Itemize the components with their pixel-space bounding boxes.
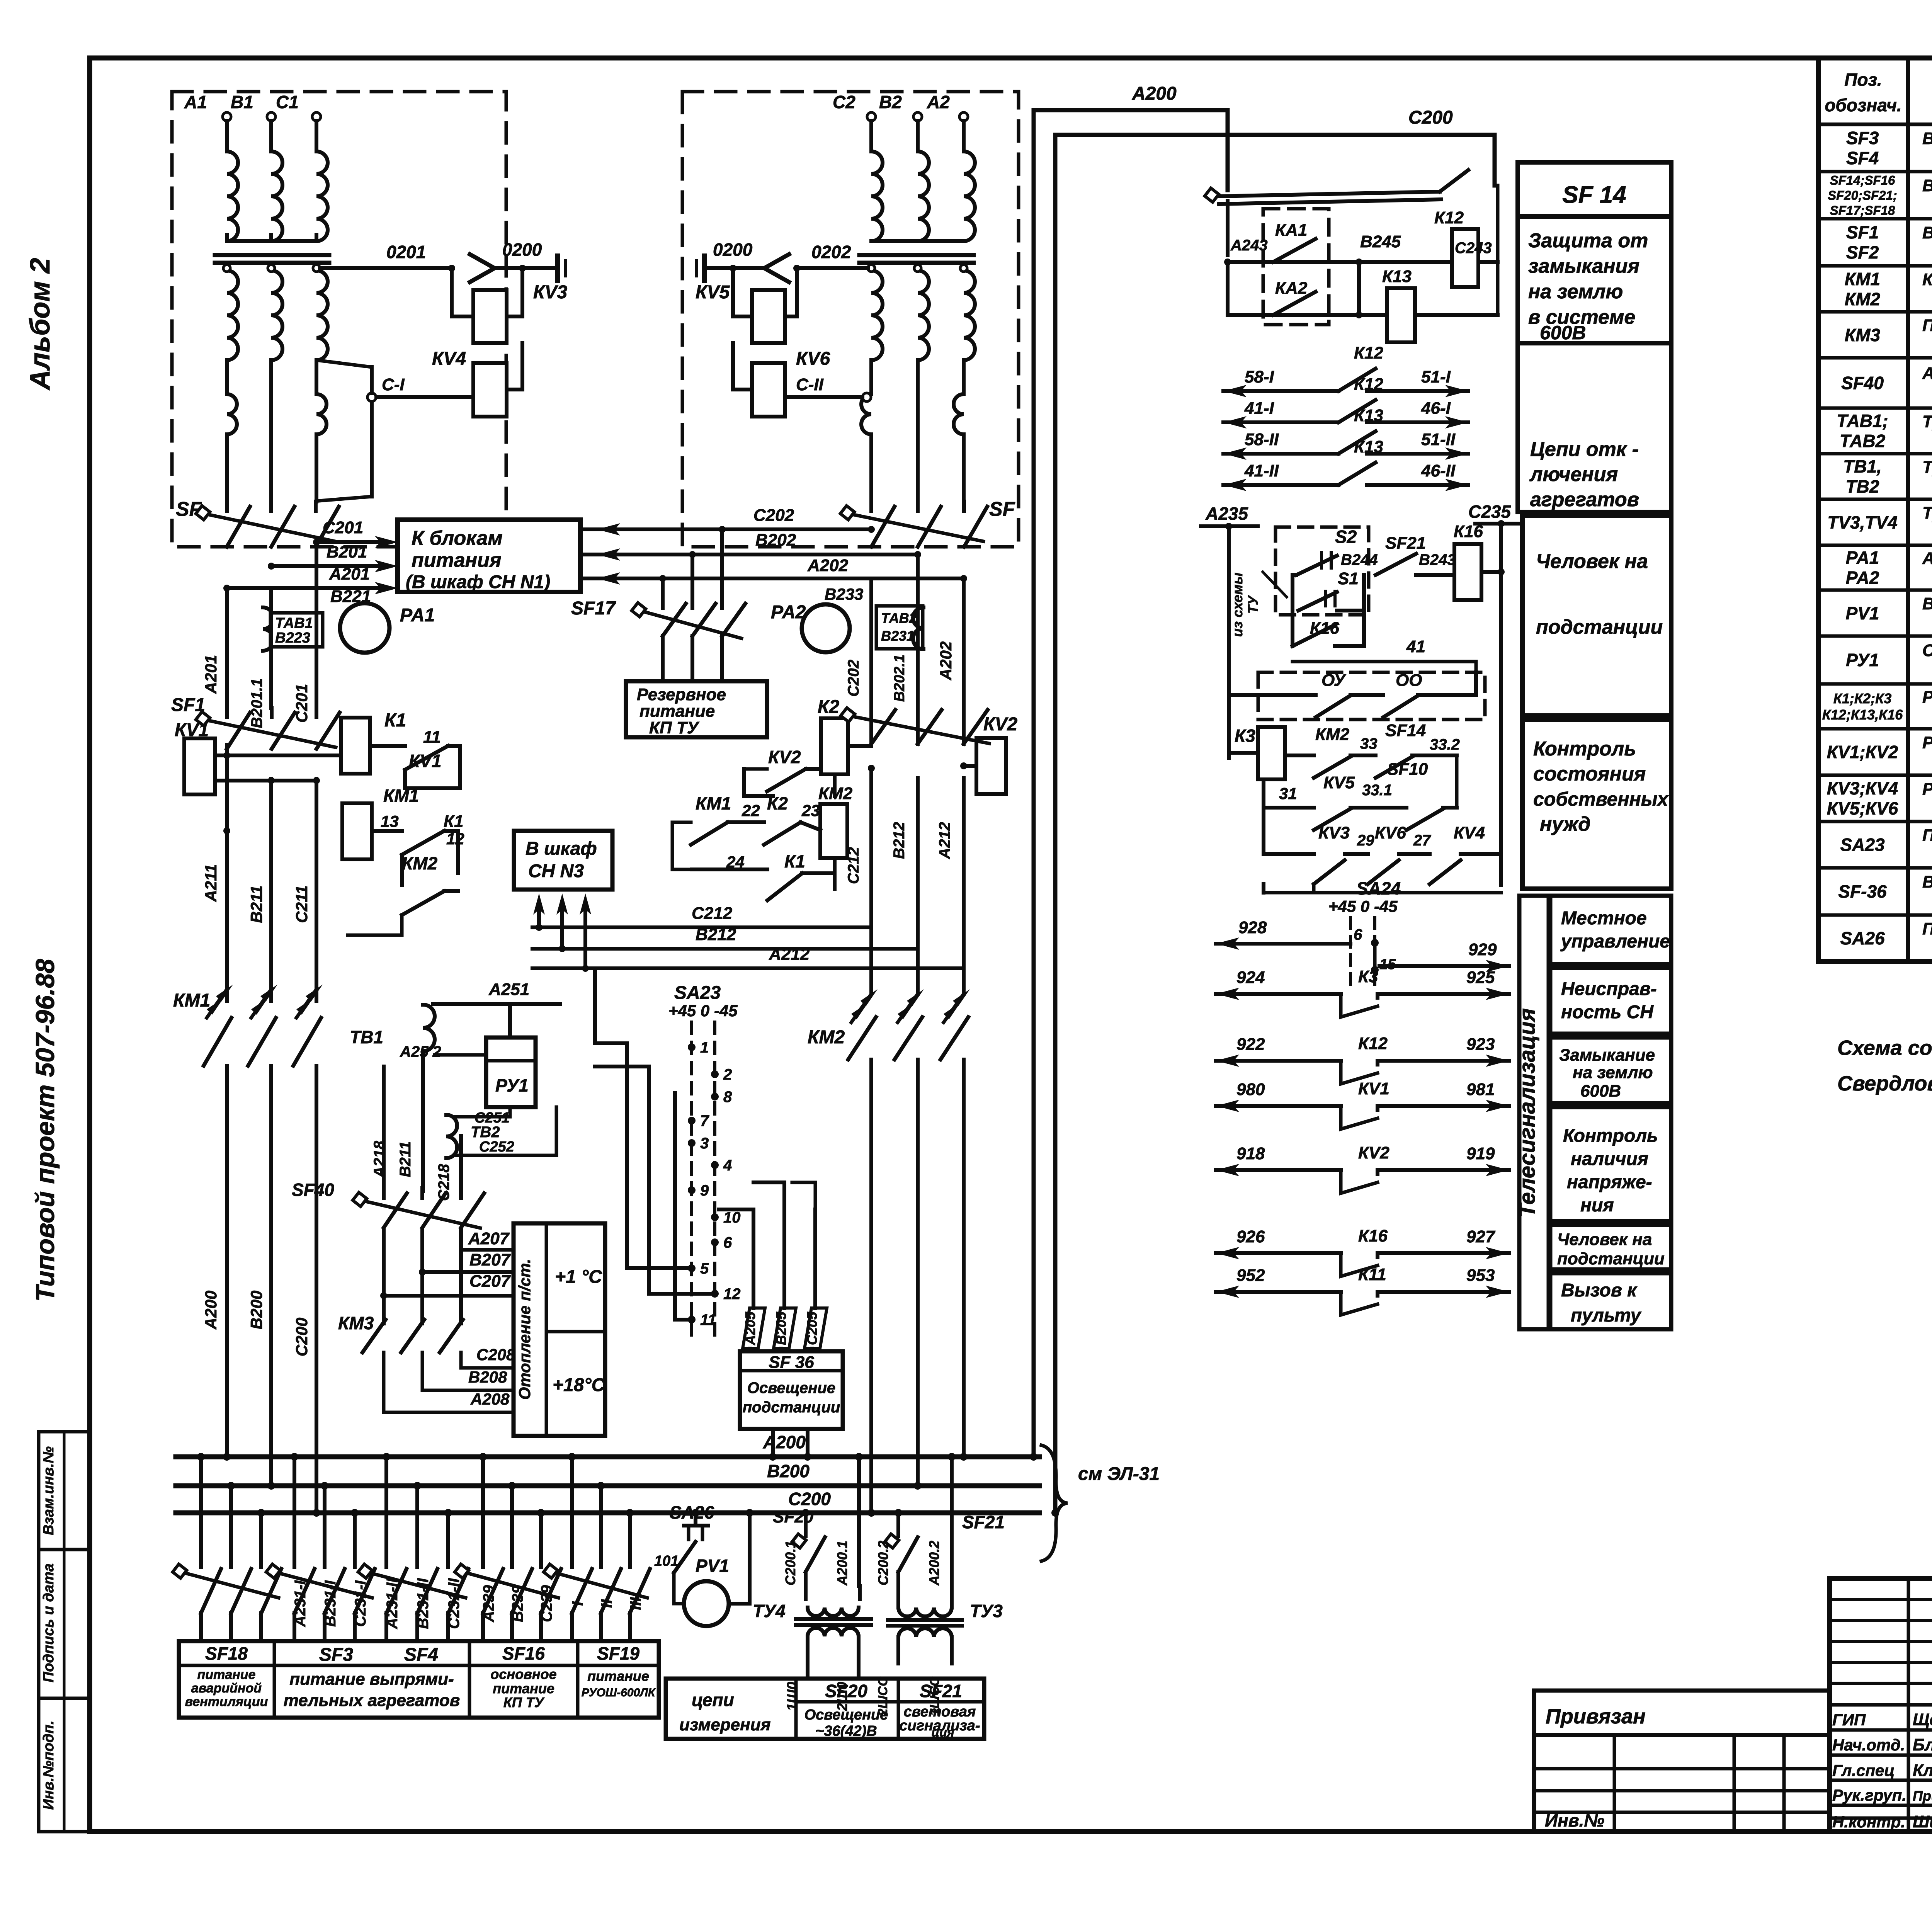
svg-text:К16: К16 xyxy=(1358,1226,1388,1245)
svg-text:41: 41 xyxy=(1406,637,1425,656)
svg-text:РА2: РА2 xyxy=(1846,568,1879,588)
svg-text:К12;К13,К16: К12;К13,К16 xyxy=(1822,707,1903,723)
svg-text:980: 980 xyxy=(1236,1080,1265,1099)
svg-text:К1: К1 xyxy=(444,812,464,831)
svg-text:С208: С208 xyxy=(476,1345,515,1364)
svg-text:лючения: лючения xyxy=(1529,463,1618,486)
svg-text:41-II: 41-II xyxy=(1244,461,1279,480)
wire 0201 xyxy=(320,266,452,270)
svg-text:РА2: РА2 xyxy=(771,602,806,623)
svg-text:С252: С252 xyxy=(479,1139,514,1155)
svg-text:КV2: КV2 xyxy=(768,747,801,767)
telesignal row 980 KV1 981 xyxy=(1216,1104,1341,1108)
current transformer TAB2 xyxy=(876,606,923,649)
svg-text:Выключатель автоматический А: Выключатель автоматический АП50-3МТ xyxy=(1922,176,1932,195)
svg-text:основное: основное xyxy=(490,1666,556,1682)
T2 primary leads xyxy=(869,121,873,151)
svg-text:КП ТУ: КП ТУ xyxy=(649,718,700,737)
label box earth-fault xyxy=(1518,216,1671,343)
svg-text:А218: А218 xyxy=(371,1140,388,1178)
svg-text:В201.1: В201.1 xyxy=(248,679,265,728)
feeder group 3 poles xyxy=(384,1457,388,1567)
svg-text:В233: В233 xyxy=(825,585,863,603)
svg-text:ТАВ1: ТАВ1 xyxy=(275,615,313,631)
svg-text:SF14: SF14 xyxy=(1385,721,1426,740)
svg-text:ОУ: ОУ xyxy=(1321,671,1346,690)
relay K16 coil xyxy=(1454,544,1481,600)
svg-text:А2: А2 xyxy=(927,92,950,112)
svg-text:В212: В212 xyxy=(891,822,908,859)
svg-text:С231-I: С231-I xyxy=(352,1580,369,1627)
svg-text:А201: А201 xyxy=(202,655,220,694)
relay KV6 xyxy=(752,363,785,417)
svg-text:С243: С243 xyxy=(1455,240,1492,257)
label box call to console xyxy=(1550,1273,1671,1329)
svg-text:КА2: КА2 xyxy=(1275,279,1308,298)
svg-text:23: 23 xyxy=(801,801,820,820)
svg-text:SF 14: SF 14 xyxy=(1562,182,1626,208)
svg-text:пульту: пульту xyxy=(1571,1305,1642,1326)
svg-text:SA26: SA26 xyxy=(1840,928,1884,948)
transformer T2 dashed enclosure xyxy=(682,92,1019,547)
svg-text:58-II: 58-II xyxy=(1245,430,1279,449)
svg-text:922: 922 xyxy=(1236,1035,1265,1054)
svg-text:Свердловского электромеханиче: Свердловского электромеханического завод… xyxy=(1837,1072,1932,1095)
svg-text:SF40: SF40 xyxy=(292,1180,334,1200)
svg-text:агрегатов: агрегатов xyxy=(1530,488,1639,511)
svg-text:состояния: состояния xyxy=(1533,763,1646,785)
bus C200 xyxy=(176,1510,1039,1516)
measuring circuits table xyxy=(666,1679,984,1739)
transformer T1 dashed enclosure xyxy=(172,92,506,547)
relay KV3 xyxy=(473,290,507,343)
svg-text:6: 6 xyxy=(1354,926,1362,943)
svg-text:А202: А202 xyxy=(937,641,955,680)
wires from SF36 box to buses xyxy=(771,1429,775,1457)
svg-text:SF2: SF2 xyxy=(1846,242,1879,262)
svg-text:923: 923 xyxy=(1466,1035,1495,1054)
svg-text:КV6: КV6 xyxy=(1375,823,1406,842)
svg-text:0202: 0202 xyxy=(811,242,851,262)
svg-text:С2: С2 xyxy=(833,92,855,112)
svg-text:А205: А205 xyxy=(742,1311,758,1345)
svg-text:В211: В211 xyxy=(247,885,265,923)
svg-text:918: 918 xyxy=(1236,1144,1265,1163)
svg-text:~36(42)В: ~36(42)В xyxy=(815,1723,877,1739)
svg-text:+1 °С: +1 °С xyxy=(555,1267,602,1287)
svg-text:Выключатель автоматический А3: Выключатель автоматический А3716 xyxy=(1922,223,1932,242)
T2 tertiary CT coils xyxy=(861,394,871,434)
relay KV1 box xyxy=(184,738,215,794)
svg-text:В201: В201 xyxy=(327,543,367,561)
svg-text:КV6: КV6 xyxy=(796,349,830,369)
linked-project table xyxy=(1534,1691,1830,1832)
svg-text:В231: В231 xyxy=(881,628,914,644)
svg-text:5: 5 xyxy=(700,1260,709,1277)
svg-text:III: III xyxy=(627,1597,644,1610)
ladder bottom wire xyxy=(1262,884,1265,893)
svg-text:51-I: 51-I xyxy=(1421,367,1451,386)
svg-text:КА1: КА1 xyxy=(1275,221,1307,240)
svg-text:К12: К12 xyxy=(1358,1034,1388,1053)
wire B202 row xyxy=(580,553,918,556)
svg-text:Замыкание: Замыкание xyxy=(1559,1046,1655,1065)
svg-text:КМ3: КМ3 xyxy=(338,1313,374,1333)
svg-text:928: 928 xyxy=(1238,918,1267,937)
T1 secondary leads xyxy=(225,360,229,393)
svg-text:КМ2: КМ2 xyxy=(1845,289,1881,309)
svg-text:ОО: ОО xyxy=(1396,671,1422,690)
svg-text:подстанции: подстанции xyxy=(743,1399,840,1416)
bus junction dots xyxy=(223,1453,231,1461)
svg-text:В208: В208 xyxy=(468,1368,507,1386)
svg-text:Контактор КТ6013-01У3 ~220В: Контактор КТ6013-01У3 ~220В xyxy=(1922,270,1932,289)
svg-text:С239: С239 xyxy=(538,1585,555,1622)
svg-text:К3: К3 xyxy=(1358,967,1378,986)
svg-text:К11: К11 xyxy=(1358,1265,1386,1284)
svg-text:Типовой проект 507-96.88: Типовой проект 507-96.88 xyxy=(31,959,60,1302)
telesignalling vertical strip xyxy=(1519,896,1549,1329)
svg-text:КV5;КV6: КV5;КV6 xyxy=(1827,798,1898,818)
SA23 wiring to KM2 rows xyxy=(625,1043,629,1268)
relay KV2 box xyxy=(976,738,1006,794)
svg-text:на землю: на землю xyxy=(1573,1063,1653,1082)
svg-text:вентиляции: вентиляции xyxy=(185,1694,268,1709)
svg-text:953: 953 xyxy=(1466,1266,1495,1285)
svg-text:А211: А211 xyxy=(202,864,220,902)
label box SN fault xyxy=(1550,968,1671,1034)
svg-text:А1: А1 xyxy=(184,92,207,112)
svg-text:РУ1: РУ1 xyxy=(495,1075,529,1095)
svg-text:КV3: КV3 xyxy=(533,282,568,303)
svg-text:В202: В202 xyxy=(755,531,796,549)
svg-text:Реле промежуточное РП25 УХЛ4;: Реле промежуточное РП25 УХЛ4; ~220В xyxy=(1922,688,1932,707)
svg-text:КМ2: КМ2 xyxy=(818,784,853,803)
fuse tags A205 B205 C205 xyxy=(743,1308,765,1349)
wires A211 B211 C211 xyxy=(225,745,229,1001)
svg-text:+45 0 -45: +45 0 -45 xyxy=(1328,897,1398,915)
svg-text:51-II: 51-II xyxy=(1421,430,1456,449)
svg-text:S1: S1 xyxy=(1338,569,1359,588)
svg-text:КМ2: КМ2 xyxy=(1315,725,1350,744)
svg-text:на землю: на землю xyxy=(1528,281,1623,303)
svg-text:33.2: 33.2 xyxy=(1430,736,1460,753)
node C-I tap xyxy=(367,393,376,401)
relay K13 (earth) xyxy=(1387,288,1415,342)
svg-text:925: 925 xyxy=(1466,968,1495,987)
SA23 contacts xyxy=(688,1043,696,1051)
svg-text:927: 927 xyxy=(1466,1227,1496,1246)
svg-text:SF3: SF3 xyxy=(1846,128,1879,148)
label box local control xyxy=(1550,896,1671,964)
svg-text:Контроль: Контроль xyxy=(1563,1126,1658,1146)
svg-text:С200: С200 xyxy=(1408,107,1453,128)
feeder C200 top xyxy=(1055,135,1495,185)
svg-text:собственных: собственных xyxy=(1533,788,1669,810)
svg-text:ция: ция xyxy=(931,1725,954,1739)
svg-text:I: I xyxy=(569,1601,586,1606)
svg-text:SF20;SF21;: SF20;SF21; xyxy=(1828,188,1897,202)
svg-text:КV2: КV2 xyxy=(1358,1143,1389,1162)
feeder group 4 poles xyxy=(481,1457,485,1567)
svg-text:С205: С205 xyxy=(804,1311,820,1345)
svg-text:подстанции: подстанции xyxy=(1557,1249,1665,1268)
svg-text:SF20: SF20 xyxy=(825,1681,867,1701)
svg-text:КV1;КV2: КV1;КV2 xyxy=(1827,742,1898,762)
svg-text:С212: С212 xyxy=(845,847,862,884)
svg-text:46-I: 46-I xyxy=(1421,399,1451,418)
svg-text:SF21: SF21 xyxy=(962,1512,1005,1532)
link arrow to 0200 xyxy=(470,254,495,282)
svg-text:КV3: КV3 xyxy=(1318,823,1350,842)
svg-text:обознач.: обознач. xyxy=(1825,95,1901,115)
svg-text:А200: А200 xyxy=(202,1291,220,1330)
feeder group 5 poles xyxy=(570,1457,574,1567)
SA23 dashed stems xyxy=(690,1022,693,1335)
svg-text:К13: К13 xyxy=(1354,437,1383,456)
svg-text:SF19: SF19 xyxy=(597,1643,639,1664)
svg-text:Резервное: Резервное xyxy=(637,685,726,704)
bank2 phase breaker contacts xyxy=(871,710,895,744)
svg-text:SA23: SA23 xyxy=(1840,835,1884,855)
svg-text:ТВ1,: ТВ1, xyxy=(1843,456,1882,476)
current transformer TB1 xyxy=(423,1005,435,1051)
svg-text:12: 12 xyxy=(723,1286,741,1303)
svg-text:II: II xyxy=(598,1599,615,1608)
svg-text:7: 7 xyxy=(700,1112,709,1129)
svg-text:КV5: КV5 xyxy=(1323,773,1355,792)
svg-text:Переключатель ТП1-2: Переключатель ТП1-2 xyxy=(1922,919,1932,938)
svg-text:2: 2 xyxy=(723,1066,732,1083)
telecontrol row 58-I K12 51-I xyxy=(1223,389,1338,393)
svg-text:Переключатель универсальный: Переключатель универсальный xyxy=(1922,826,1932,845)
svg-text:Отопление п/ст.: Отопление п/ст. xyxy=(515,1259,534,1400)
svg-text:из схемы: из схемы xyxy=(1230,573,1245,637)
svg-text:К13: К13 xyxy=(1354,406,1383,425)
svg-text:КМ1: КМ1 xyxy=(383,786,419,806)
svg-text:22: 22 xyxy=(742,801,760,820)
telecontrol row 41-I K12 46-I xyxy=(1223,420,1338,424)
svg-text:Схема соответствует чертежу: Схема соответствует чертежу ЗМЗ 512.086-… xyxy=(1837,1036,1932,1060)
svg-text:ТУ: ТУ xyxy=(1245,595,1261,614)
svg-text:РА1: РА1 xyxy=(1846,548,1879,568)
svg-text:Неисправ-: Неисправ- xyxy=(1561,979,1657,999)
bus continuation brace xyxy=(1041,1445,1068,1561)
svg-text:8: 8 xyxy=(723,1089,732,1106)
K2 coil connection xyxy=(848,744,871,748)
svg-text:Реле напряжения РН-53/200: Реле напряжения РН-53/200 xyxy=(1922,779,1932,798)
svg-text:КV1: КV1 xyxy=(1358,1079,1389,1098)
T2 secondary leads xyxy=(869,360,873,393)
svg-text:аварийной: аварийной xyxy=(191,1681,262,1696)
terminal A2 xyxy=(959,112,968,121)
svg-text:подстанции: подстанции xyxy=(1536,616,1663,638)
svg-text:ТАВ2: ТАВ2 xyxy=(1840,431,1886,451)
svg-text:3: 3 xyxy=(700,1135,709,1152)
svg-text:нужд: нужд xyxy=(1540,813,1590,835)
svg-text:0200: 0200 xyxy=(502,240,542,260)
relay KV5 xyxy=(752,290,785,343)
label box earth fault 600V xyxy=(1550,1038,1671,1103)
svg-text:SF 36: SF 36 xyxy=(769,1353,814,1372)
svg-text:46-II: 46-II xyxy=(1421,461,1456,480)
svg-text:наличия: наличия xyxy=(1571,1149,1648,1169)
svg-text:Автоматический выключатель АП: Автоматический выключатель АП50-3МТ xyxy=(1922,364,1932,383)
svg-text:ГИП: ГИП xyxy=(1832,1711,1866,1729)
wire A201 row xyxy=(227,586,383,590)
svg-text:В211: В211 xyxy=(397,1141,414,1177)
svg-text:Альбом 2: Альбом 2 xyxy=(25,258,56,390)
wire 0202 xyxy=(797,266,868,270)
svg-text:SF: SF xyxy=(989,498,1015,520)
svg-text:С212: С212 xyxy=(692,904,733,923)
left stamp boxes xyxy=(39,1432,90,1832)
svg-text:TV3,TV4: TV3,TV4 xyxy=(1827,512,1898,532)
svg-text:КV2: КV2 xyxy=(983,714,1018,735)
svg-text:(В шкаф СН N1): (В шкаф СН N1) xyxy=(406,572,550,592)
svg-text:КV5: КV5 xyxy=(696,282,730,303)
T2 primary star bar xyxy=(871,239,964,243)
current transformer TB2 xyxy=(446,1115,457,1158)
T2 secondary top terminals xyxy=(868,265,875,272)
svg-text:РУ1: РУ1 xyxy=(1846,650,1879,670)
svg-text:981: 981 xyxy=(1466,1080,1495,1099)
svg-text:ность СН: ность СН xyxy=(1561,1002,1654,1022)
T2 primary coils xyxy=(871,151,883,241)
wires to lighting tags xyxy=(752,1209,755,1279)
svg-text:С202: С202 xyxy=(753,506,794,525)
svg-text:SF18: SF18 xyxy=(205,1643,248,1664)
svg-text:Трансформатор ОСМ1-0,25У3; 220: Трансформатор ОСМ1-0,25У3; 220/42В xyxy=(1922,503,1932,522)
svg-text:Поз.: Поз. xyxy=(1844,70,1882,90)
feeder description boxes xyxy=(179,1641,659,1718)
svg-text:SF16: SF16 xyxy=(502,1643,545,1664)
svg-text:952: 952 xyxy=(1236,1266,1265,1285)
svg-text:11: 11 xyxy=(700,1311,716,1328)
svg-text:SF4: SF4 xyxy=(404,1645,438,1665)
svg-text:Цепи отк -: Цепи отк - xyxy=(1530,438,1639,461)
svg-text:31: 31 xyxy=(1279,784,1297,803)
svg-text:К1: К1 xyxy=(384,710,406,731)
svg-text:Трансформатор ТК-40-40/ 5: Трансформатор ТК-40-40/ 5 xyxy=(1922,458,1932,477)
svg-text:А212: А212 xyxy=(769,945,810,964)
svg-text:К12: К12 xyxy=(1434,208,1464,227)
svg-text:К13: К13 xyxy=(1382,267,1412,286)
T1 primary coils xyxy=(227,151,238,241)
T2 core xyxy=(859,253,974,257)
telesignal row 929 xyxy=(1379,964,1509,968)
svg-text:+18°С: +18°С xyxy=(553,1375,605,1395)
svg-text:тельных агрегатов: тельных агрегатов xyxy=(284,1691,460,1710)
svg-text:Пускатель магнитный ПМЛ-210004: Пускатель магнитный ПМЛ-210004;~220В; 25… xyxy=(1922,316,1932,335)
svg-text:С200: С200 xyxy=(293,1318,311,1356)
wire 0200 left separable terminal xyxy=(707,266,764,270)
svg-text:КV1: КV1 xyxy=(409,751,442,771)
svg-text:Щетинский: Щетинский xyxy=(1913,1710,1932,1729)
svg-text:А200.2: А200.2 xyxy=(926,1541,942,1586)
svg-text:11: 11 xyxy=(423,728,441,747)
svg-text:питания: питания xyxy=(412,549,501,572)
svg-text:33: 33 xyxy=(1360,735,1378,752)
svg-text:А25 2: А25 2 xyxy=(400,1043,441,1060)
svg-text:А239: А239 xyxy=(480,1585,497,1622)
svg-text:27: 27 xyxy=(1413,832,1431,849)
box to cab SN N3 xyxy=(514,831,612,890)
svg-text:SF21: SF21 xyxy=(920,1681,962,1701)
svg-text:SF3: SF3 xyxy=(319,1645,353,1665)
svg-text:600В: 600В xyxy=(1580,1082,1621,1101)
S2 dashed box xyxy=(1276,527,1369,615)
svg-text:измерения: измерения xyxy=(679,1715,771,1734)
wire C201 row xyxy=(316,540,383,544)
svg-text:А200: А200 xyxy=(1132,83,1177,104)
KV1 to phases wires xyxy=(215,754,341,757)
svg-text:А200.1: А200.1 xyxy=(834,1541,850,1586)
svg-text:Освещение: Освещение xyxy=(804,1707,888,1723)
svg-text:А201: А201 xyxy=(329,565,370,583)
svg-text:С201: С201 xyxy=(293,684,311,723)
svg-text:SА24: SА24 xyxy=(1356,878,1401,898)
label box person at substation small xyxy=(1550,1225,1671,1269)
svg-text:замыкания: замыкания xyxy=(1528,255,1639,277)
svg-text:цепи: цепи xyxy=(692,1690,734,1710)
svg-text:питание: питание xyxy=(197,1667,256,1682)
svg-text:ТУ3: ТУ3 xyxy=(970,1601,1003,1621)
svg-text:4: 4 xyxy=(723,1157,732,1174)
arrows into SN N3 box xyxy=(533,893,545,915)
svg-text:В244: В244 xyxy=(1341,551,1378,568)
telesignal row 928 xyxy=(1216,942,1350,946)
svg-text:S2: S2 xyxy=(1335,527,1357,547)
svg-text:питание: питание xyxy=(639,702,715,721)
svg-text:К12: К12 xyxy=(1354,375,1384,394)
svg-text:ния: ния xyxy=(1580,1195,1614,1216)
terminal C2 xyxy=(867,112,876,121)
heating box Otoplenie xyxy=(514,1223,605,1436)
wire A202 row xyxy=(580,577,964,580)
svg-text:13: 13 xyxy=(381,812,399,830)
svg-text:ТВ1: ТВ1 xyxy=(350,1027,383,1047)
label box person at substation xyxy=(1522,516,1671,716)
svg-text:Инв.№: Инв.№ xyxy=(1545,1810,1604,1830)
svg-text:В200: В200 xyxy=(247,1291,265,1329)
svg-text:К1: К1 xyxy=(784,851,805,871)
svg-text:КМ1: КМ1 xyxy=(173,990,210,1011)
svg-text:Выключатель автоматический АП: Выключатель автоматический АП50-3МТ xyxy=(1922,129,1932,148)
svg-text:В шкаф: В шкаф xyxy=(526,839,597,859)
svg-text:C-I: C-I xyxy=(382,375,405,394)
svg-text:РА1: РА1 xyxy=(400,605,435,626)
telesignal row 952 K11 953 xyxy=(1216,1290,1341,1294)
wire 0200 with separable terminal xyxy=(495,266,555,270)
svg-text:924: 924 xyxy=(1236,968,1265,987)
svg-text:КМ2: КМ2 xyxy=(402,853,438,873)
svg-text:PV1: PV1 xyxy=(1846,603,1879,623)
svg-text:SF-36: SF-36 xyxy=(1838,881,1887,902)
bus A200 xyxy=(176,1454,1039,1459)
T1 secondary coils xyxy=(227,270,238,360)
svg-text:КП ТУ: КП ТУ xyxy=(503,1694,545,1710)
svg-text:С211: С211 xyxy=(293,885,311,923)
svg-text:К блокам: К блокам xyxy=(412,527,503,549)
KA dashed box xyxy=(1263,209,1329,325)
svg-text:К2: К2 xyxy=(767,793,788,813)
telecontrol row 58-II K13 51-II xyxy=(1223,452,1338,456)
terminal B1 xyxy=(267,112,276,121)
svg-text:33.1: 33.1 xyxy=(1362,782,1392,799)
svg-text:питание: питание xyxy=(493,1681,554,1696)
svg-text:КМ2: КМ2 xyxy=(808,1027,845,1048)
